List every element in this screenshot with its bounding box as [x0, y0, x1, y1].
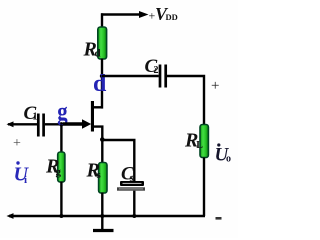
wire Cs to bottom rail — [133, 191, 135, 216]
svg-text:d: d — [95, 48, 101, 60]
wire input to C1 — [8, 123, 39, 125]
svg-text:U: U — [14, 164, 30, 186]
drain lead — [92, 106, 102, 108]
wire C1 to gate node — [45, 123, 64, 125]
capacitor C2 — [160, 65, 166, 88]
transistor channel bar — [91, 101, 94, 132]
resistor Rs — [99, 163, 107, 194]
wire Rs to rail — [101, 193, 103, 217]
junction rail Rg — [59, 214, 63, 218]
svg-text:L: L — [196, 140, 203, 151]
ground — [93, 216, 114, 231]
source lead — [92, 127, 102, 140]
wire top rail to VDD — [101, 11, 149, 18]
capacitor C1 — [38, 114, 43, 137]
label - output — [216, 217, 222, 220]
svg-text:1: 1 — [33, 112, 38, 123]
label C1 — [24, 103, 38, 124]
label C2 — [145, 56, 159, 77]
gate arrow of JFET — [63, 119, 91, 129]
svg-text:+: + — [211, 78, 219, 94]
wire Rg column — [60, 124, 62, 153]
node s junction — [100, 137, 105, 142]
resistor Rd — [98, 27, 107, 59]
capacitor Cs top plate — [120, 181, 144, 186]
label Cs — [121, 164, 134, 185]
resistor RL — [200, 125, 208, 158]
input terminal top arrow — [7, 121, 14, 127]
power label +VDD — [149, 4, 178, 24]
bottom rail wire — [9, 215, 205, 217]
input terminal bottom arrow — [7, 213, 14, 219]
wire RL to bottom rail — [203, 158, 205, 217]
wire Rs column — [101, 140, 103, 163]
wire node d to C2 — [102, 75, 159, 77]
svg-text:s: s — [97, 169, 102, 181]
label Rs — [86, 160, 102, 182]
wire source to Cs — [102, 140, 134, 182]
label RL — [184, 130, 203, 152]
wire Rg to rail — [60, 182, 62, 217]
node g — [57, 98, 68, 127]
wire C2 to RL — [167, 76, 204, 125]
junction rail Rs — [100, 214, 104, 218]
wire Rd to drain — [101, 59, 103, 109]
label Rg — [45, 156, 62, 179]
svg-text:o: o — [226, 154, 231, 165]
svg-text:i: i — [24, 174, 27, 186]
label Uo — [215, 143, 232, 165]
resistor Rg — [58, 152, 65, 182]
junction rail Cs — [132, 214, 136, 218]
label Rd — [83, 39, 101, 61]
wire main vertical top — [101, 13, 103, 28]
svg-text:DD: DD — [166, 12, 178, 22]
label Ui — [14, 161, 30, 186]
capacitor Cs bottom plate — [117, 187, 145, 190]
node d — [93, 71, 107, 97]
svg-text:2: 2 — [154, 65, 159, 76]
svg-text:g: g — [56, 166, 62, 178]
svg-text:+: + — [13, 136, 21, 151]
